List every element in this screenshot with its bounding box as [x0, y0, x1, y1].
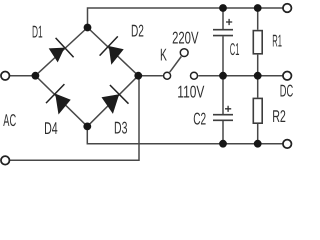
svg-text:R2: R2 [272, 107, 286, 126]
svg-text:K: K [160, 46, 167, 65]
svg-text:D3: D3 [114, 119, 127, 138]
svg-text:D2: D2 [131, 22, 144, 41]
svg-text:DC: DC [280, 82, 293, 101]
svg-text:C2: C2 [193, 110, 206, 129]
svg-text:AC: AC [3, 111, 16, 130]
svg-text:R1: R1 [272, 31, 282, 50]
svg-text:220V: 220V [172, 29, 199, 48]
svg-text:D1: D1 [32, 22, 43, 41]
svg-text:C1: C1 [230, 40, 240, 59]
svg-text:D4: D4 [44, 119, 58, 138]
svg-text:110V: 110V [177, 83, 205, 102]
